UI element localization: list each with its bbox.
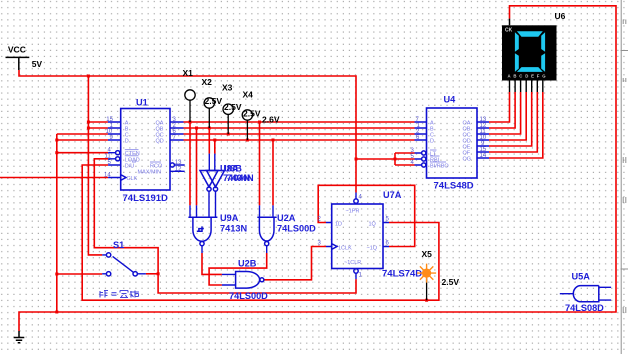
svg-text:LT: LT	[430, 151, 437, 157]
svg-text:74LS00D: 74LS00D	[229, 291, 268, 301]
svg-text:2.6V: 2.6V	[262, 115, 280, 125]
svg-text:D: D	[125, 138, 129, 144]
svg-text:~1PR: ~1PR	[346, 209, 360, 215]
svg-text:VCC: VCC	[8, 45, 26, 55]
svg-text:U7A: U7A	[383, 190, 402, 200]
svg-text:U1: U1	[136, 98, 148, 108]
svg-text:X1: X1	[183, 68, 194, 78]
svg-text:~1CLR: ~1CLR	[344, 260, 361, 266]
svg-text:2.5V: 2.5V	[243, 109, 261, 119]
svg-text:5V: 5V	[32, 59, 43, 69]
svg-text:CK: CK	[505, 27, 513, 33]
svg-text:U4: U4	[444, 95, 457, 105]
svg-text:S1: S1	[113, 240, 124, 250]
svg-text:74LS74D: 74LS74D	[382, 269, 422, 280]
svg-text:MAX/MIN: MAX/MIN	[138, 170, 162, 176]
svg-text:CTEN: CTEN	[125, 151, 140, 157]
svg-text:74LS48D: 74LS48D	[434, 181, 474, 192]
svg-text:ABCDEFG: ABCDEFG	[508, 74, 549, 79]
svg-text:~1Q: ~1Q	[367, 245, 378, 251]
svg-text:74LS08D: 74LS08D	[565, 303, 604, 313]
svg-text:OG: OG	[463, 156, 472, 162]
svg-text:QD: QD	[156, 138, 164, 144]
svg-text:13: 13	[175, 160, 182, 166]
svg-text:1Q: 1Q	[369, 221, 377, 227]
svg-text:2.5V: 2.5V	[442, 277, 460, 287]
svg-text:U6: U6	[555, 11, 566, 21]
svg-text:1CLK: 1CLK	[338, 245, 352, 251]
svg-text:14: 14	[104, 172, 111, 178]
svg-text:7413N: 7413N	[220, 223, 247, 233]
svg-text:CLK: CLK	[127, 176, 138, 182]
svg-text:D: D	[430, 138, 434, 144]
svg-text:74LS191D: 74LS191D	[123, 193, 169, 204]
svg-text:X2: X2	[202, 77, 213, 87]
svg-text:BI/RBO: BI/RBO	[430, 164, 449, 170]
svg-text:14: 14	[480, 153, 487, 159]
svg-text:RBI: RBI	[430, 157, 440, 163]
svg-text:2.5V: 2.5V	[205, 96, 223, 106]
svg-text:RCO: RCO	[150, 163, 163, 169]
svg-text:X5: X5	[422, 249, 433, 259]
svg-text:U5A: U5A	[572, 272, 591, 282]
svg-text:74LS00D: 74LS00D	[277, 223, 316, 233]
svg-text:U2B: U2B	[238, 259, 257, 269]
svg-text:LOAD: LOAD	[125, 157, 140, 163]
svg-text:X3: X3	[222, 83, 233, 93]
svg-text:U9A: U9A	[220, 213, 239, 223]
svg-text:7404N: 7404N	[227, 173, 254, 183]
svg-text:12: 12	[175, 166, 182, 172]
svg-text:X4: X4	[243, 90, 254, 100]
svg-text:11: 11	[105, 154, 112, 160]
svg-text:2.5V: 2.5V	[224, 102, 242, 112]
svg-text:U2A: U2A	[277, 213, 296, 223]
svg-text:1D: 1D	[335, 221, 342, 227]
svg-text:D/U: D/U	[125, 164, 135, 170]
svg-text:U8B: U8B	[224, 163, 243, 173]
